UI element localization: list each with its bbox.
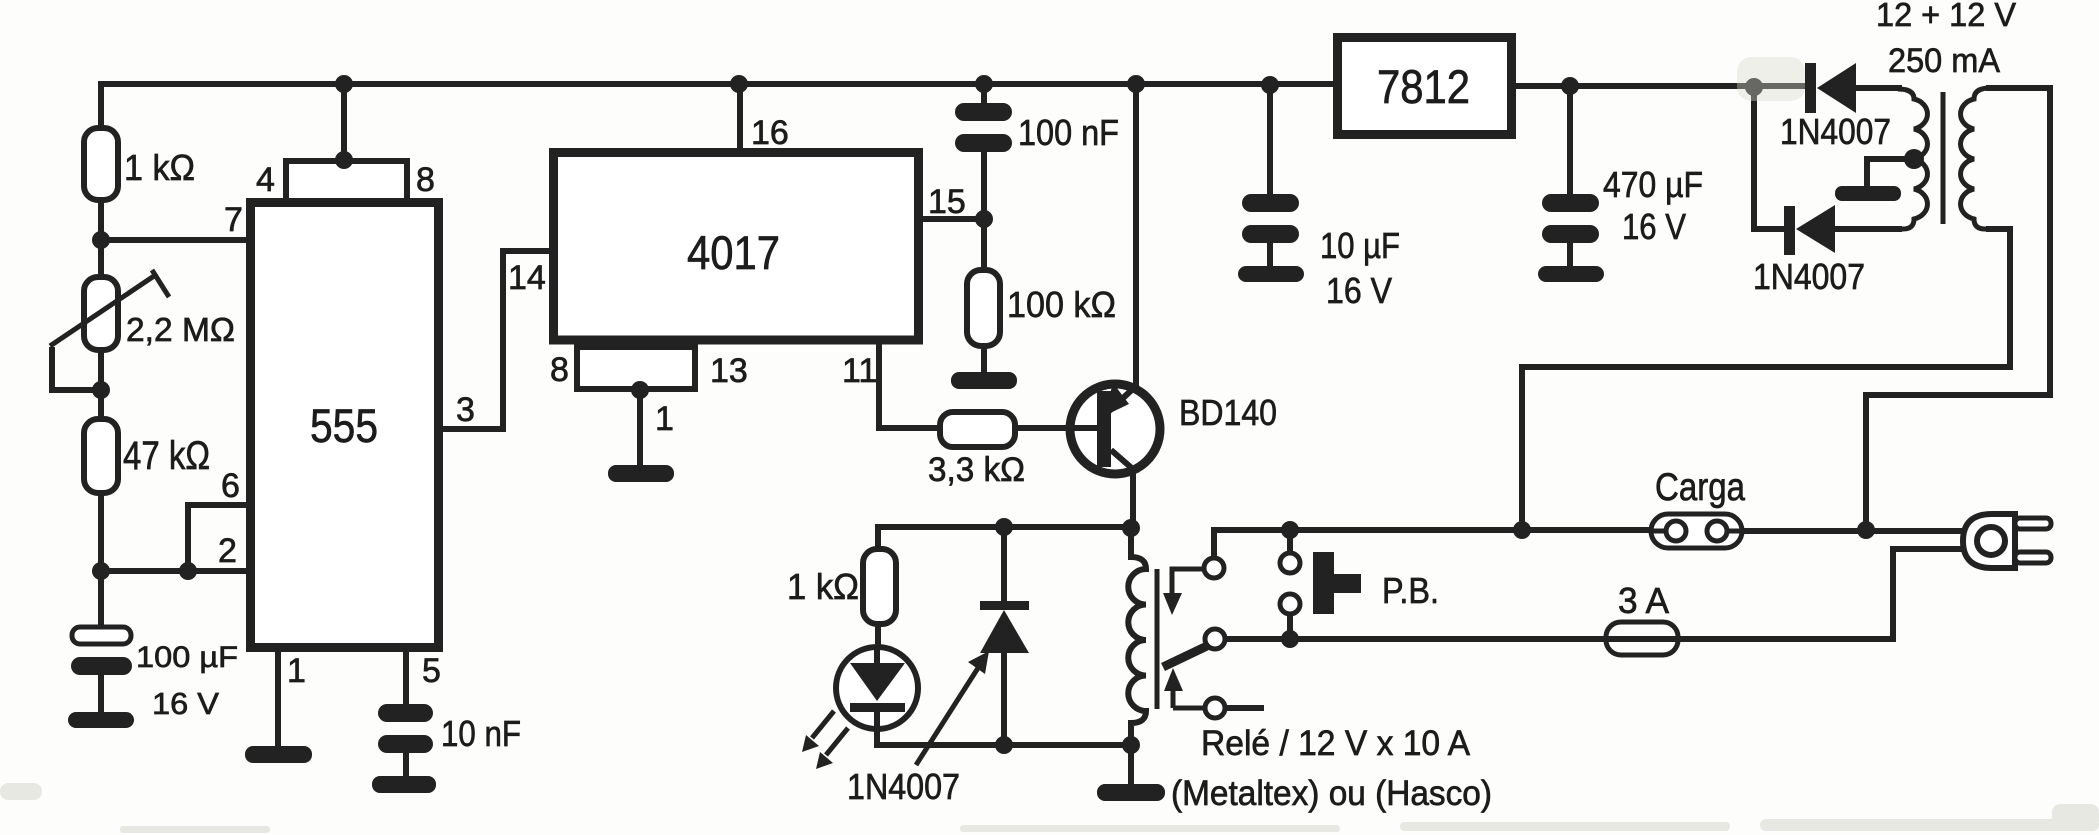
capacitor 10 uF plate 2	[1242, 225, 1299, 243]
relay common contact circle	[1205, 629, 1225, 649]
wire rail to 10uF	[1267, 85, 1273, 195]
wire 10nF to ground	[403, 753, 409, 776]
wire pot to 47kΩ	[98, 347, 104, 420]
junction plug line right	[1857, 521, 1875, 539]
capacitor 470 uF plate 1	[1542, 194, 1599, 212]
svg-text:250 mA: 250 mA	[1888, 42, 2000, 80]
capacitor 10 nF plate 1	[378, 704, 433, 722]
junction pin 6/2 tie	[179, 562, 197, 580]
resistor 3,3 kΩ	[940, 412, 1015, 447]
relay bottom contact stub	[1225, 705, 1264, 711]
junction load line left	[1513, 521, 1531, 539]
relay up arrow	[1171, 689, 1176, 708]
wire pin 1	[275, 648, 281, 746]
svg-text:1: 1	[287, 652, 306, 690]
wire diode to transformer top	[1855, 85, 1902, 91]
junction PB top	[1281, 521, 1299, 539]
transistor base bar	[1097, 391, 1111, 467]
resistor 100 kΩ	[967, 270, 1000, 346]
ground 10 uF	[1238, 266, 1304, 282]
transistor base wire inside	[1069, 425, 1098, 431]
junction pin 7 node	[92, 231, 110, 249]
wire coil to ground	[1128, 745, 1134, 784]
svg-text:8: 8	[416, 161, 435, 199]
junction flyback diode top	[995, 518, 1013, 536]
pushbutton PB stub top	[1287, 530, 1293, 553]
transformer core	[1941, 92, 1946, 224]
svg-text:16 V: 16 V	[1622, 206, 1686, 247]
svg-text:BD140: BD140	[1179, 392, 1277, 433]
wire 470uF to ground	[1567, 243, 1573, 266]
wire rail to 470uF	[1567, 86, 1573, 195]
wire 1kΩ to pot	[98, 198, 104, 280]
load Carga circle 2	[1707, 521, 1727, 541]
junction pin 15 node	[975, 210, 993, 228]
junction pin 2 node	[92, 562, 110, 580]
pushbutton PB circle top	[1280, 553, 1300, 573]
pushbutton PB plunger	[1313, 552, 1334, 614]
wire switched node left net	[878, 527, 1131, 549]
ground 100 kΩ	[951, 372, 1017, 389]
diode 1N4007 upper triangle	[1817, 63, 1856, 113]
relay bottom contact circle	[1205, 698, 1225, 718]
svg-text:16 V: 16 V	[152, 686, 219, 721]
svg-text:12 + 12 V: 12 + 12 V	[1876, 0, 2016, 33]
svg-text:555: 555	[310, 399, 378, 452]
svg-text:100 kΩ: 100 kΩ	[1007, 284, 1116, 325]
svg-text:8: 8	[550, 351, 569, 389]
resistor 1 kΩ	[84, 128, 118, 200]
transistor emitter	[1108, 386, 1136, 412]
transistor BD140	[1070, 384, 1160, 474]
resistor 1 kΩ LED	[863, 549, 896, 624]
load Carga body	[1651, 514, 1742, 548]
relay core bar	[1155, 569, 1160, 709]
wire pin 6 bracket	[188, 505, 247, 571]
relay contact top arm with down arrow	[1172, 569, 1204, 596]
plug prong lower	[2015, 552, 2051, 563]
transistor collector	[1111, 450, 1134, 470]
diode 1N4007 flyback cathode bar	[980, 601, 1029, 610]
junction rail / 470 uF	[1561, 77, 1579, 95]
svg-text:100 nF: 100 nF	[1018, 112, 1119, 153]
svg-text:1 kΩ: 1 kΩ	[787, 566, 859, 607]
svg-text:14: 14	[508, 259, 546, 297]
relay bottom contact wire	[1173, 706, 1205, 711]
ground 4017	[608, 465, 674, 482]
wire diode branch down	[1754, 87, 1788, 229]
IC 4017	[554, 153, 919, 341]
IC 4017 pins 8-13 tab	[577, 347, 695, 389]
junction on tab	[335, 151, 353, 169]
wire 10uF to ground	[1267, 243, 1273, 266]
plug prong upper	[2015, 518, 2051, 529]
svg-text:3,3 kΩ: 3,3 kΩ	[928, 451, 1025, 489]
wire 100uF to ground	[98, 675, 104, 712]
svg-text:1 kΩ: 1 kΩ	[124, 147, 195, 188]
pushbutton PB stub bottom	[1287, 614, 1293, 639]
wire emitter to rail	[1133, 84, 1139, 389]
svg-text:10 µF: 10 µF	[1320, 225, 1400, 266]
relay coil	[1128, 528, 1146, 745]
ground pin 1	[245, 746, 312, 763]
diode 1N4007 lower triangle	[1796, 205, 1835, 253]
svg-text:2,2 MΩ: 2,2 MΩ	[126, 311, 235, 348]
resistor 47 kΩ	[84, 419, 118, 493]
svg-text:10 nF: 10 nF	[441, 713, 521, 754]
svg-text:(Metaltex) ou (Hasco): (Metaltex) ou (Hasco)	[1171, 774, 1492, 813]
capacitor 100 nF plate 2	[955, 134, 1012, 152]
wire LED to bottom net	[877, 710, 1131, 745]
LED triangle	[850, 663, 905, 701]
ground 100uF	[68, 712, 134, 728]
svg-text:1N4007: 1N4007	[847, 766, 960, 807]
svg-text:11: 11	[842, 352, 877, 390]
junction rail / BD140 emitter	[1127, 75, 1145, 93]
svg-text:P.B.: P.B.	[1382, 570, 1439, 611]
ground center tap	[1835, 186, 1901, 201]
wire pin 11	[879, 340, 941, 428]
svg-text:5: 5	[422, 652, 441, 690]
wire common to fuse	[1225, 549, 1966, 639]
wire Carga to plug	[1742, 528, 1966, 534]
junction rail / 100 nF	[975, 75, 993, 93]
wire collector down	[1130, 468, 1136, 529]
junction collector node	[1122, 519, 1140, 537]
wire primary top to plug line	[1866, 88, 2050, 531]
wire LED anode inside	[874, 647, 880, 665]
wire load line	[1214, 527, 1651, 533]
plug body	[1963, 514, 2015, 568]
wire pin 7	[101, 237, 247, 243]
svg-text:4017: 4017	[687, 226, 780, 279]
junction pot bottom node	[92, 381, 110, 399]
wire tab to rail	[341, 84, 347, 161]
LED emission arrows	[812, 711, 848, 755]
wire V+ rail right of 7812	[1515, 83, 1808, 89]
wire V+ top rail	[101, 84, 1334, 130]
pointer arrow 1N4007	[916, 668, 978, 765]
LED circle	[836, 647, 918, 729]
wire 47kΩ to pin2 node	[98, 492, 104, 571]
svg-text:13: 13	[710, 352, 748, 390]
junction coil bottom	[1122, 736, 1140, 754]
transformer secondary winding	[1898, 89, 1927, 229]
wire flyback diode bottom	[1001, 653, 1007, 745]
junction rail / diodes	[1745, 78, 1763, 96]
capacitor 470 uF plate 2	[1542, 225, 1599, 243]
junction flyback diode bottom	[995, 736, 1013, 754]
svg-text:470 µF: 470 µF	[1603, 164, 1703, 205]
wire resistor to LED	[875, 624, 881, 664]
junction rail / 10 uF	[1261, 76, 1279, 94]
svg-text:1N4007: 1N4007	[1753, 256, 1865, 297]
svg-text:6: 6	[221, 467, 240, 505]
svg-text:47 kΩ: 47 kΩ	[123, 434, 210, 478]
relay contact top stub	[1214, 530, 1240, 558]
ground 470 uF	[1538, 266, 1604, 282]
wire pin 16	[737, 84, 743, 152]
relay contact top circle	[1204, 558, 1224, 578]
potentiometer 2,2 MΩ body	[84, 277, 118, 350]
wire base BD140	[1017, 425, 1098, 431]
diode 1N4007 lower cathode bar	[1784, 206, 1795, 255]
wire rail to 100nF	[981, 84, 987, 104]
svg-text:4: 4	[256, 161, 275, 199]
IC 555 pins 4-8 tab	[286, 161, 407, 201]
svg-text:Relé / 12 V x 10 A: Relé / 12 V x 10 A	[1201, 724, 1471, 763]
junction PB bottom	[1281, 630, 1299, 648]
capacitor 100 uF positive plate	[72, 627, 131, 644]
potentiometer wiper arrow	[50, 270, 169, 346]
wire primary bottom to load line	[1522, 229, 2010, 530]
diode 1N4007 upper cathode bar	[1805, 63, 1816, 113]
wire center tap	[1867, 159, 1914, 186]
ground 10 nF	[372, 776, 436, 793]
svg-text:16 V: 16 V	[1326, 270, 1392, 311]
svg-text:Carga: Carga	[1655, 466, 1745, 509]
junction rail / 4017 pin 16	[730, 75, 748, 93]
svg-text:15: 15	[928, 183, 966, 221]
transistor emitter arrow	[1104, 383, 1129, 416]
transformer center tap junction	[1904, 149, 1924, 169]
diode 1N4007 flyback triangle	[980, 610, 1029, 653]
wire 100kΩ to ground	[981, 346, 987, 372]
transformer primary winding	[1961, 88, 1990, 229]
junction tab ground	[631, 381, 649, 399]
capacitor 100 uF negative plate	[71, 657, 132, 675]
svg-text:3: 3	[456, 391, 475, 429]
wire pot wiper return	[52, 347, 101, 390]
capacitor 10 nF plate 2	[378, 735, 433, 753]
load Carga circle 1	[1666, 521, 1686, 541]
wire Carga internal stubs	[1651, 529, 1742, 534]
wire pin 3 to 4017 pin 14	[439, 251, 550, 429]
wire flyback diode top	[1001, 527, 1007, 602]
svg-text:3 A: 3 A	[1618, 580, 1669, 621]
plug inner circle	[1977, 527, 2005, 555]
fuse 3 A	[1606, 622, 1678, 655]
capacitor 10 uF plate 1	[1242, 194, 1299, 212]
relay moving arm	[1163, 646, 1207, 667]
svg-text:1N4007: 1N4007	[1780, 111, 1891, 152]
svg-text:7812: 7812	[1377, 60, 1470, 113]
capacitor 100 nF plate 1	[955, 103, 1012, 121]
wire pin 15	[919, 216, 984, 222]
wire pin 5	[403, 648, 409, 704]
junction rail / 555 pins 4-8	[335, 75, 353, 93]
LED cathode bar	[850, 703, 905, 712]
svg-text:1: 1	[655, 400, 674, 438]
svg-text:2: 2	[218, 532, 237, 570]
svg-text:16: 16	[751, 114, 789, 152]
svg-text:100 µF: 100 µF	[136, 641, 238, 674]
regulator IC 7812	[1338, 38, 1512, 135]
wire 100nF to node	[981, 152, 987, 270]
wire diode to transformer bottom	[1835, 226, 1902, 232]
op IC 555	[251, 203, 439, 648]
wire tab to ground	[637, 390, 643, 465]
svg-text:7: 7	[224, 201, 243, 239]
pushbutton PB circle bottom	[1280, 594, 1300, 614]
wire pin 2	[101, 568, 247, 574]
ground relay coil	[1097, 784, 1165, 801]
wire to 100uF	[98, 571, 104, 627]
